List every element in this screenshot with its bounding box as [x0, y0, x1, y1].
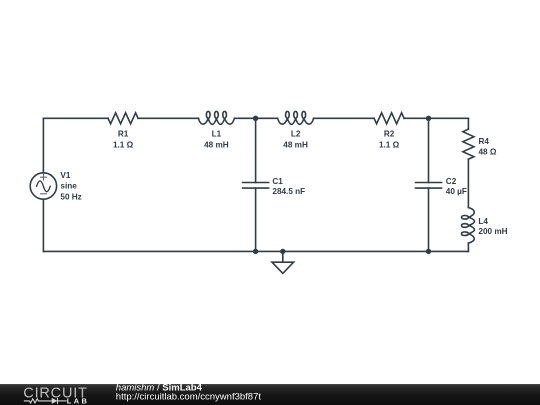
svg-text:48 mH: 48 mH: [204, 140, 229, 149]
svg-text:V1: V1: [60, 171, 70, 180]
svg-text:L4: L4: [478, 217, 488, 226]
svg-text:48 Ω: 48 Ω: [479, 147, 497, 156]
svg-text:sine: sine: [60, 182, 77, 191]
svg-text:L1: L1: [212, 130, 222, 139]
svg-text:L2: L2: [291, 130, 301, 139]
svg-text:48 mH: 48 mH: [283, 140, 308, 149]
svg-text:40 µF: 40 µF: [446, 187, 467, 196]
svg-text:1.1 Ω: 1.1 Ω: [379, 140, 400, 149]
svg-text:R1: R1: [118, 130, 129, 139]
svg-text:LAB: LAB: [67, 396, 89, 405]
svg-text:C2: C2: [446, 177, 457, 186]
svg-text:284.5 nF: 284.5 nF: [272, 187, 305, 196]
svg-text:1.1 Ω: 1.1 Ω: [113, 140, 134, 149]
svg-text:R2: R2: [384, 130, 395, 139]
svg-text:50 Hz: 50 Hz: [60, 193, 81, 202]
svg-text:C1: C1: [272, 177, 283, 186]
svg-text:http://circuitlab.com/ccnywnf3: http://circuitlab.com/ccnywnf3bf87t: [116, 392, 262, 403]
svg-text:200 mH: 200 mH: [478, 227, 507, 236]
svg-text:R4: R4: [479, 137, 490, 146]
